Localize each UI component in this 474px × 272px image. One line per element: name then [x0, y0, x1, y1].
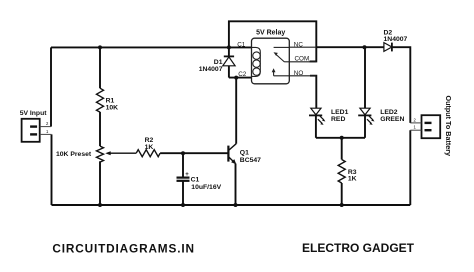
- junction node LED join / R3: [340, 136, 344, 140]
- diode D1 (flyback, cathode bar top + triangle): [223, 56, 235, 65]
- svg-text:10uF/16V: 10uF/16V: [191, 184, 221, 191]
- wire R3 bottom to bottom rail: [341, 183, 343, 205]
- wire left rail lower (pin1 down to bottom rail): [51, 134, 53, 205]
- svg-text:COM: COM: [295, 56, 310, 63]
- wire Q1 collector up to relay C2 line: [235, 78, 237, 144]
- junction node NC / D2 / LED2: [363, 45, 367, 49]
- svg-text:RED: RED: [331, 116, 345, 123]
- svg-text:R1: R1: [106, 97, 115, 104]
- svg-text:10K: 10K: [106, 104, 119, 111]
- connector J1 pin 1 bar and stub: [30, 133, 37, 135]
- wire D2 cathode to right corner and down to output pin2: [392, 47, 410, 123]
- relay coil loop 3: [253, 68, 260, 75]
- wire LED2 anode up to NC node: [364, 47, 366, 108]
- wire LED join line: [316, 137, 365, 139]
- svg-text:R2: R2: [145, 137, 154, 144]
- junction node C2 line / collector: [234, 76, 238, 80]
- junction node bottom rail / C1: [181, 203, 185, 207]
- resistor R2 zigzag: [136, 150, 160, 157]
- relay coil loop 2: [253, 60, 260, 67]
- transistor Q1 collector stroke: [229, 144, 236, 150]
- svg-text:ELECTRO GADGET: ELECTRO GADGET: [302, 241, 415, 255]
- wire preset wiper to R2: [107, 152, 136, 154]
- diode D2 (triangle pointing right + cathode bar): [384, 43, 392, 52]
- LED1 symbol (triangle down + bar + emission arrows): [309, 108, 325, 125]
- wire C1 bottom to bottom rail: [182, 181, 184, 205]
- svg-text:10K Preset: 10K Preset: [56, 151, 92, 158]
- wire D1 top stub: [228, 47, 230, 56]
- relay switch arm with arrowhead: [277, 55, 285, 62]
- relay coil outline: [252, 47, 261, 76]
- junction node top rail / R1: [98, 45, 102, 49]
- svg-text:GREEN: GREEN: [380, 116, 404, 123]
- relay pin NC stub and name: [289, 46, 316, 48]
- wire LED1 cathode down: [315, 115, 317, 137]
- svg-text:2: 2: [46, 121, 49, 126]
- svg-text:NC: NC: [294, 42, 304, 49]
- relay switch COM stub inside: [285, 61, 290, 63]
- relay switch NO contact with up arrow: [274, 71, 290, 76]
- wire Q1 emitter down to bottom rail: [235, 164, 237, 206]
- relay coil loop 1: [253, 52, 260, 59]
- wire D1 bottom stub: [228, 66, 230, 78]
- svg-text:C2: C2: [238, 71, 247, 78]
- svg-text:1N4007: 1N4007: [199, 66, 223, 73]
- svg-text:C1: C1: [191, 177, 200, 184]
- junction node base / R2 / C1: [181, 151, 185, 155]
- svg-text:1: 1: [414, 125, 417, 130]
- connector J2 pin 1 bar and stub: [425, 129, 432, 131]
- svg-text:BC547: BC547: [240, 157, 261, 164]
- svg-text:1: 1: [46, 129, 49, 134]
- svg-text:LED2: LED2: [380, 109, 398, 116]
- relay inner body box: [252, 38, 290, 84]
- wire output pin1 down to bottom rail: [409, 130, 411, 205]
- wire R1 top (top rail to R1): [99, 47, 101, 88]
- connector J2 Output To Battery box: [422, 115, 441, 138]
- svg-text:CIRCUITDIAGRAMS.IN: CIRCUITDIAGRAMS.IN: [52, 241, 194, 255]
- svg-text:Q1: Q1: [240, 149, 249, 156]
- wire LED2 cathode down: [364, 115, 366, 137]
- wire top rail (+5V): [51, 46, 229, 48]
- wire R3 top: [341, 138, 343, 160]
- wire relay C2 line (D1 anode to relay body): [229, 77, 252, 79]
- wire R1 bottom to preset top: [99, 112, 101, 146]
- wire relay frame loop (C1 corner up, across top, down to COM): [229, 21, 316, 61]
- wire relay C1 stub (top rail to relay body): [229, 46, 252, 48]
- relay pin NO stub and name: [289, 75, 316, 77]
- junction node bottom rail / R3: [340, 203, 344, 207]
- connector J2 pin 2 bar and stub: [425, 122, 432, 124]
- svg-text:5V Relay: 5V Relay: [256, 29, 285, 36]
- wire left rail upper (5V input pin2 up to top rail): [50, 47, 52, 126]
- svg-text:1K: 1K: [348, 176, 357, 183]
- svg-text:Output To Battery: Output To Battery: [444, 96, 453, 157]
- potentiometer wiper arrow: [105, 151, 111, 155]
- LED2 symbol (triangle down + bar + emission arrows): [358, 108, 374, 125]
- relay switch NC contact line: [274, 46, 290, 48]
- svg-text:5V Input: 5V Input: [20, 110, 48, 117]
- wire NO down to LED1: [310, 76, 316, 109]
- wire C1 top: [182, 153, 184, 177]
- junction node top rail / D1 / relay frame: [227, 45, 231, 49]
- connector J1 pin 2 bar and stub: [30, 125, 37, 127]
- svg-text:+: +: [185, 172, 189, 178]
- resistor R1 zigzag: [97, 88, 104, 112]
- svg-text:1N4007: 1N4007: [384, 36, 408, 43]
- capacitor C1 polarized plates: [177, 177, 190, 179]
- relay pin COM stub and name: [289, 61, 316, 63]
- connector J1 5V Input box: [22, 119, 40, 142]
- wire bottom rail (0V): [52, 204, 411, 206]
- svg-text:NO: NO: [294, 70, 304, 77]
- svg-text:C1: C1: [237, 41, 246, 48]
- junction node bottom rail / preset: [98, 203, 102, 207]
- svg-text:LED1: LED1: [331, 109, 349, 116]
- wire R2 to Q1 base (node B): [160, 152, 228, 154]
- transistor Q1 emitter stroke with arrow: [229, 157, 236, 163]
- transistor Q1 base bar: [227, 146, 229, 162]
- junction node bottom rail / emitter: [234, 203, 238, 207]
- svg-text:D1: D1: [214, 59, 223, 66]
- resistor R3 zigzag: [338, 160, 345, 183]
- svg-text:2: 2: [414, 117, 417, 122]
- wire preset bottom to bottom rail: [99, 161, 101, 205]
- potentiometer RV1 10K Preset zigzag: [97, 146, 104, 162]
- wire NC to D2 junction: [316, 46, 384, 48]
- svg-text:1K: 1K: [145, 144, 154, 151]
